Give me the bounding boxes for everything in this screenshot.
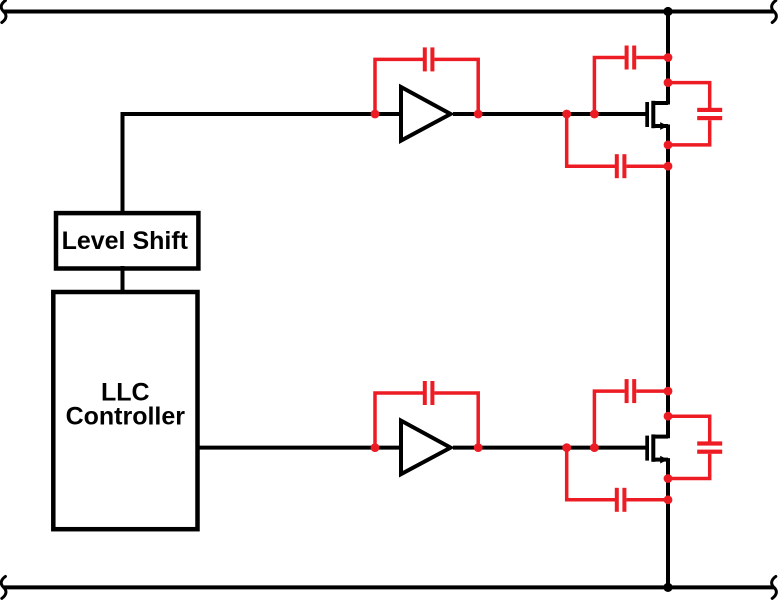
capacitor Cgs Q2 low-side (gate-source)	[567, 447, 615, 500]
wire driver Q1 high-side input	[123, 114, 401, 215]
wire driver Q2 low-side input	[197, 446, 400, 450]
junction rail to VBUS	[663, 7, 672, 16]
capacitor Cgd Q1 high-side (gate-drain)	[594, 58, 624, 114]
capacitor driver parasitic CQ2 low-sidedrv	[375, 393, 423, 447]
junction gate node Q2 low-side (Cgd tap)	[590, 443, 599, 452]
capacitor Cgs Q1 high-side (gate-source)	[567, 113, 615, 166]
junction rail to GND	[663, 583, 672, 592]
wire bottom return rail (GND)	[4, 585, 774, 589]
transistor MOSFET Q1 high-side channel bar	[651, 101, 655, 128]
break symbol top-right (rail continues)	[772, 1, 777, 23]
junction drain node Q2 low-side (Cds top)	[664, 412, 673, 421]
block Level Shift	[56, 213, 198, 268]
break symbol bottom-right (rail continues)	[772, 576, 777, 598]
junction gate node Q1 high-side (Cgd tap)	[590, 110, 599, 119]
wire top power rail (VBUS)	[4, 10, 774, 14]
buffer driver Q1 high-side	[401, 87, 451, 141]
junction source node Q1 high-side (Cds bottom)	[664, 141, 673, 150]
wire driver Q1 high-side output to gate	[453, 112, 647, 116]
transistor MOSFET Q1 high-side source lead with arrow	[653, 124, 668, 128]
junction source node Q2 low-side (Cds bottom)	[664, 474, 673, 483]
junction source rail node Q2 low-side (Cgs)	[664, 495, 673, 504]
junction source rail node Q1 high-side (Cgs)	[664, 162, 673, 171]
block LLC Controller	[53, 292, 197, 529]
capacitor driver parasitic CQ1 high-sidedrv	[375, 59, 423, 113]
break symbol bottom-left (rail continues)	[1, 576, 6, 598]
transistor MOSFET Q2 low-side source lead with arrow	[653, 458, 668, 462]
transistor MOSFET Q2 low-side channel bar	[651, 434, 655, 461]
transistor MOSFET Q1 high-side gate bar	[645, 102, 649, 127]
junction driver Q1 high-side output node	[474, 110, 483, 119]
capacitor Cds Q1 high-side (drain-source)	[667, 83, 710, 109]
junction gate node Q2 low-side (Cgs tap)	[562, 443, 571, 452]
junction drain rail node Q1 high-side (Cgd)	[664, 53, 673, 62]
svg-text:Controller: Controller	[66, 403, 186, 431]
junction driver Q1 high-side input node	[371, 110, 380, 119]
junction drain rail node Q2 low-side (Cgd)	[664, 387, 673, 396]
junction drain node Q1 high-side (Cds top)	[664, 78, 673, 87]
wire source rail Q2 to GND	[666, 458, 670, 587]
junction driver Q2 low-side output node	[474, 443, 483, 452]
wire switch node rail (Q1 source to Q2 drain)	[666, 125, 670, 439]
transistor MOSFET Q2 low-side drain lead	[653, 435, 668, 439]
transistor MOSFET Q1 high-side drain lead	[653, 101, 668, 105]
transistor MOSFET Q2 low-side gate bar	[645, 436, 649, 461]
wire drain rail Q1 from VBUS	[666, 12, 670, 105]
wire Level Shift to LLC Controller	[121, 266, 125, 294]
capacitor Cds Q2 low-side (drain-source)	[667, 416, 710, 442]
buffer driver Q2 low-side	[401, 421, 451, 475]
break symbol top-left (rail continues)	[1, 1, 6, 23]
wire driver Q2 low-side output to gate	[453, 446, 647, 450]
capacitor Cgd Q2 low-side (gate-drain)	[594, 391, 624, 447]
junction gate node Q1 high-side (Cgs tap)	[562, 110, 571, 119]
svg-text:Level Shift: Level Shift	[62, 227, 189, 255]
junction driver Q2 low-side input node	[371, 443, 380, 452]
